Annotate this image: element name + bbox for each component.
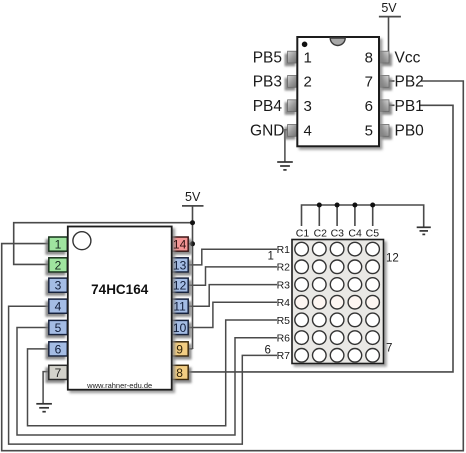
wire pin4 QB to R7 (around bottom) <box>9 306 277 444</box>
svg-text:7: 7 <box>365 74 373 91</box>
wire PB1 net: pin6 stub dash <box>389 104 395 106</box>
svg-text:PB1: PB1 <box>395 98 424 115</box>
pin1 marker circle <box>73 232 91 250</box>
svg-text:1: 1 <box>268 251 274 263</box>
notch <box>330 38 345 46</box>
wire GND pin4 to ground <box>285 130 289 162</box>
wire pin9 MR stub to 5V vertical <box>188 348 193 350</box>
svg-text:C1: C1 <box>296 228 310 240</box>
svg-text:R5: R5 <box>277 315 291 327</box>
svg-text:8: 8 <box>365 49 373 66</box>
svg-text:8: 8 <box>176 366 183 380</box>
svg-text:R1: R1 <box>277 244 291 256</box>
svg-text:74HC164: 74HC164 <box>91 282 149 297</box>
svg-text:R7: R7 <box>277 350 291 362</box>
svg-text:1: 1 <box>304 49 312 66</box>
svg-text:6: 6 <box>365 98 373 115</box>
node labels C1-C5 <box>296 228 379 240</box>
wire PB1 net: label to right vertical, down to 74HC164 pin8 wire <box>189 105 453 372</box>
power 5V (74HC164) <box>182 190 204 349</box>
svg-text:11: 11 <box>173 300 186 314</box>
pin numbers 74HC164 left <box>55 238 62 380</box>
node junction dots on column bus <box>317 203 375 208</box>
svg-text:2: 2 <box>304 74 312 91</box>
ground (74HC164 pin7) <box>36 404 52 412</box>
svg-text:C3: C3 <box>331 228 345 240</box>
svg-text:5V: 5V <box>185 190 201 204</box>
IC ATtiny pin tabs right (pins 8-5) <box>379 51 389 136</box>
svg-text:GND: GND <box>250 123 284 140</box>
wire column bus to ground <box>302 205 424 227</box>
svg-text:R4: R4 <box>277 297 291 309</box>
wire pin14 Vcc stub <box>188 243 193 245</box>
svg-text:PB3: PB3 <box>253 74 282 91</box>
svg-text:12: 12 <box>173 279 187 293</box>
IC ATtiny body <box>297 37 379 146</box>
svg-text:R6: R6 <box>277 333 291 345</box>
wire pin10 QE to R4 <box>188 302 277 327</box>
LED pixels grid <box>295 242 380 362</box>
svg-text:7: 7 <box>55 366 62 380</box>
node junction dot (5V / pin14) <box>190 241 195 246</box>
svg-text:C2: C2 <box>314 228 328 240</box>
ground (ATtiny GND) <box>277 162 293 170</box>
svg-text:7: 7 <box>386 343 392 355</box>
svg-text:6: 6 <box>55 342 62 356</box>
wire pin11 QF to R3 <box>188 285 277 307</box>
pin numbers ATtiny <box>304 49 374 139</box>
svg-text:4: 4 <box>55 300 62 314</box>
IC 74HC164 right pin boxes (14-8) <box>171 237 188 380</box>
svg-text:13: 13 <box>173 258 187 272</box>
IC 74HC164 left pin boxes (1-7) <box>49 237 68 380</box>
wire pin2 to 5V (A/B input tied high? no: B input to 5V) <box>14 223 193 265</box>
node junction dot (5V / pin2 wire) <box>190 220 195 225</box>
svg-text:4: 4 <box>304 123 312 140</box>
svg-text:C4: C4 <box>348 228 362 240</box>
IC 74HC164 body <box>68 227 172 391</box>
svg-text:PB2: PB2 <box>395 74 424 91</box>
wire pin7 GND to ground <box>43 372 49 403</box>
node labels R1-R7 <box>277 244 291 362</box>
svg-text:3: 3 <box>304 98 312 115</box>
svg-text:1: 1 <box>55 238 62 252</box>
IC ATtiny pin tabs left (pins 1-4) <box>288 51 298 136</box>
svg-text:Vcc: Vcc <box>395 49 421 66</box>
wire PB2 net: pin7 stub dash <box>389 80 395 82</box>
wire pin6 QD to R5 (around bottom) <box>28 320 278 426</box>
pin numbers 74HC164 right <box>173 238 187 380</box>
wire pin12 QG to R2 <box>188 267 277 285</box>
LED matrix body <box>292 240 384 364</box>
svg-text:PB0: PB0 <box>395 123 425 140</box>
node labels PB5 PB3 PB4 GND (left) <box>250 49 284 139</box>
pin1 dot <box>302 42 308 48</box>
svg-text:9: 9 <box>176 342 183 356</box>
svg-text:5: 5 <box>55 321 62 335</box>
svg-text:R2: R2 <box>277 262 291 274</box>
svg-text:12: 12 <box>386 253 399 265</box>
svg-text:PB5: PB5 <box>253 49 282 66</box>
svg-text:PB4: PB4 <box>253 98 283 115</box>
svg-text:R3: R3 <box>277 279 291 291</box>
wire pin5 QC to R6 (around bottom) <box>17 328 277 436</box>
power 5V (ATtiny) <box>379 1 401 57</box>
svg-text:2: 2 <box>55 258 62 272</box>
svg-text:5: 5 <box>365 123 373 140</box>
svg-text:www.rahner-edu.de: www.rahner-edu.de <box>86 381 152 390</box>
svg-text:C5: C5 <box>366 228 380 240</box>
display pin number labels <box>265 251 399 357</box>
wire pin13 QH to R1 <box>188 249 277 265</box>
svg-text:5V: 5V <box>381 1 397 15</box>
svg-text:10: 10 <box>173 321 187 335</box>
ground (columns) <box>417 227 431 234</box>
svg-text:6: 6 <box>265 345 271 357</box>
node labels Vcc PB2 PB1 PB0 (right) <box>395 49 425 139</box>
svg-text:14: 14 <box>173 238 187 252</box>
svg-text:3: 3 <box>55 279 62 293</box>
